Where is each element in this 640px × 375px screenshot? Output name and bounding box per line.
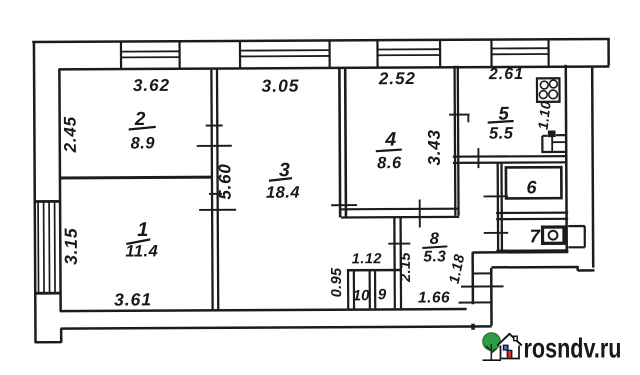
wire kitchen bottom wall band (453, 156, 567, 163)
svg-text:5.60: 5.60 (215, 163, 234, 199)
svg-text:rosndv.ru: rosndv.ru (524, 333, 622, 364)
sink kitchen (542, 131, 566, 152)
stove U1 kitchen (537, 78, 560, 102)
wire room left interior wall (59, 69, 60, 311)
svg-text:1.66: 1.66 (418, 289, 450, 306)
svg-text:8: 8 (430, 230, 440, 248)
wire entry door tick long (461, 285, 503, 287)
svg-text:4: 4 (384, 129, 396, 151)
wire entry inner vertical (471, 252, 474, 304)
wire top wall inner line (58, 66, 609, 69)
wire ticks bathroom doors (484, 196, 509, 233)
svg-text:8.6: 8.6 (377, 154, 402, 172)
wire tick hall door (388, 243, 410, 245)
svg-text:5.5: 5.5 (489, 124, 514, 142)
wire entry wall stub tip (471, 324, 475, 330)
svg-text:2.61: 2.61 (488, 66, 524, 83)
svg-text:6: 6 (526, 177, 537, 197)
window W4 top wall (491, 39, 548, 67)
svg-text:1: 1 (137, 219, 148, 241)
wire closet divider double (370, 270, 376, 309)
svg-text:8.9: 8.9 (131, 134, 156, 152)
svg-text:10: 10 (353, 287, 370, 304)
watermark tree (483, 333, 502, 361)
svg-text:1.10: 1.10 (535, 100, 554, 131)
wire hall bottom boundary (472, 251, 568, 254)
window left glazing lines (38, 201, 55, 293)
window W2 top wall (240, 40, 330, 68)
wire door ticks on wall x213 (197, 125, 236, 210)
wire closet right wall double (395, 270, 401, 309)
wire lower right ledge (491, 266, 578, 269)
window left cap bottom (36, 292, 61, 295)
svg-text:2: 2 (134, 109, 146, 130)
wire tick on kitchen bottom wall (477, 148, 479, 168)
svg-text:3.05: 3.05 (261, 76, 299, 96)
bathtub room 6 (506, 167, 562, 198)
wire wall between room 2 and room 1 (59, 176, 212, 180)
svg-text:3.61: 3.61 (114, 289, 152, 309)
wire outer top wall (32, 39, 609, 42)
wire entry connector upper (472, 272, 490, 274)
wire wall below room 4 double (394, 218, 400, 271)
wire right stair wall (592, 66, 593, 268)
wire kitchen right wall (565, 65, 568, 251)
watermark house (497, 334, 522, 359)
svg-text:2.45: 2.45 (61, 116, 80, 153)
svg-text:11.4: 11.4 (125, 242, 158, 260)
wire room 7 bottom wall (496, 249, 568, 252)
svg-text:2.15: 2.15 (398, 252, 414, 283)
wire tick on room4 bottom wall (419, 199, 421, 227)
wire closet top line (347, 269, 401, 272)
wire outer right cap top bar (607, 38, 610, 65)
svg-text:1.18: 1.18 (447, 252, 469, 285)
wire wall hall vs bathrooms double (498, 162, 502, 252)
window W3 top wall (377, 39, 440, 67)
svg-text:2.52: 2.52 (378, 69, 416, 88)
wire wall room 3 vs room 4 double line (339, 67, 346, 218)
wire duct box right of room 7 (568, 226, 585, 247)
window left cap top (35, 200, 60, 203)
wire room 4 bottom wall band (341, 209, 459, 218)
svg-text:3.15: 3.15 (61, 228, 81, 265)
wire wall between room 6 and room 7 band (496, 213, 568, 220)
wire tick on wall room3-4 (331, 204, 357, 206)
wire bottom wall upper line (60, 309, 467, 311)
svg-text:7: 7 (530, 225, 542, 246)
svg-text:18.4: 18.4 (266, 184, 300, 202)
wire bottom wall lower line (61, 326, 492, 328)
toilet room 7 (543, 227, 564, 243)
window W1 top wall (121, 41, 180, 69)
wire outer left wall (34, 41, 36, 342)
wire lower right step (578, 266, 595, 271)
wire entry outer vertical (490, 268, 493, 325)
wire wall room4 vs kitchen (455, 66, 459, 216)
svg-text:1.12: 1.12 (352, 251, 382, 267)
svg-text:5.3: 5.3 (423, 248, 446, 265)
svg-text:3.43: 3.43 (425, 129, 444, 165)
svg-text:3.62: 3.62 (133, 76, 170, 95)
svg-text:0.95: 0.95 (329, 267, 345, 297)
svg-text:9: 9 (378, 286, 387, 303)
wire kitchen door tick and hook (449, 115, 470, 123)
wire bottom left step (35, 328, 62, 343)
wire wall rooms 1-2 vs room 3 double line (211, 69, 218, 310)
wire closet left wall double (348, 270, 354, 309)
wire entry connector lower (459, 301, 492, 303)
